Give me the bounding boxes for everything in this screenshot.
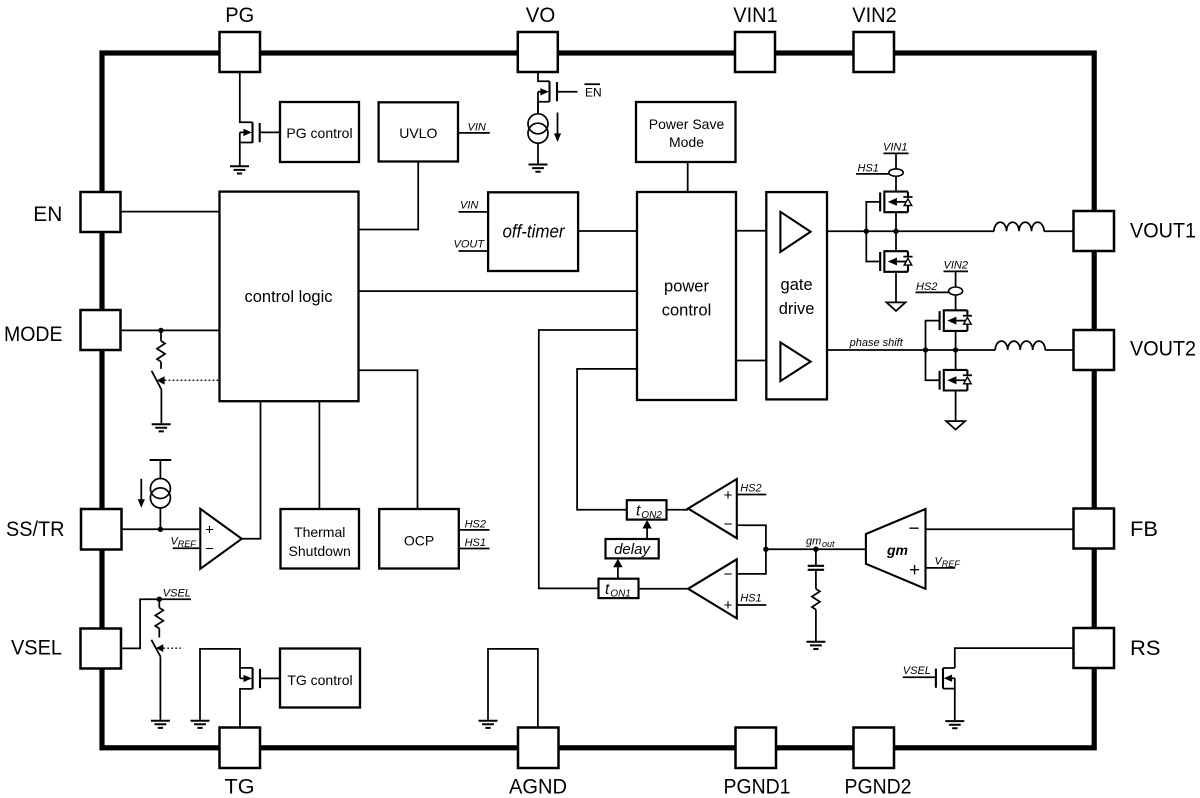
- block control logic: [220, 192, 359, 402]
- arrow delay to tON2: [646, 528, 648, 540]
- wire power control to tON1: [539, 330, 637, 588]
- svg-text:VSEL: VSEL: [163, 588, 191, 600]
- svg-text:phase shift: phase shift: [849, 337, 904, 349]
- svg-text:VIN: VIN: [468, 122, 486, 134]
- svg-text:VIN2: VIN2: [852, 3, 897, 27]
- block tON1: [599, 579, 639, 598]
- svg-text:EN: EN: [33, 202, 62, 226]
- svg-text:+: +: [724, 597, 733, 614]
- wire power control to gate drive (top): [736, 230, 766, 232]
- wire A1 out: [737, 549, 766, 574]
- transistor Q2 (VO): [538, 72, 550, 114]
- stub HS2 (A2): [737, 494, 767, 496]
- pin PGND2: [854, 728, 895, 769]
- wire RS pin: [955, 648, 1074, 668]
- pin VIN1: [735, 32, 775, 72]
- svg-text:TG control: TG control: [287, 672, 352, 688]
- svg-text:Thermal: Thermal: [294, 524, 345, 540]
- arrow (I2 current): [140, 479, 142, 500]
- wire tON1 to comparator A1: [639, 588, 689, 590]
- wire gm to FB: [926, 528, 1074, 530]
- svg-text:HS2: HS2: [916, 281, 937, 293]
- svg-text:−: −: [724, 566, 733, 583]
- transistor Q4 (RS): [943, 668, 955, 720]
- pin EN: [81, 192, 121, 232]
- svg-text:−: −: [908, 519, 919, 540]
- comparator A1: [688, 559, 737, 618]
- svg-text:control logic: control logic: [244, 288, 332, 306]
- node switch node 2: [953, 347, 958, 352]
- pin VOUT2: [1074, 330, 1115, 370]
- node switch node 1: [893, 229, 898, 234]
- resistor R3: [812, 589, 820, 610]
- pin AGND: [518, 728, 559, 769]
- pin RS: [1074, 628, 1115, 668]
- node VSEL junction: [157, 597, 162, 602]
- svg-text:MODE: MODE: [4, 322, 63, 346]
- stub HS1 (OCP): [459, 548, 490, 550]
- switch S2 (VSEL): [151, 640, 160, 657]
- inductor L1: [994, 222, 1044, 231]
- transistor M3: [940, 310, 972, 331]
- wire control logic to Thermal Shutdown: [318, 401, 320, 509]
- transistor M4: [940, 370, 972, 391]
- svg-text:VIN1: VIN1: [733, 3, 778, 27]
- svg-text:AGND: AGND: [509, 775, 567, 798]
- ground arrow (HS1): [887, 302, 906, 311]
- ground (VSEL switch): [151, 721, 170, 728]
- arrow (I1 current): [557, 113, 559, 135]
- svg-text:TG: TG: [225, 775, 255, 798]
- pin VSEL: [81, 629, 122, 669]
- svg-text:HS2: HS2: [465, 519, 486, 531]
- ground (VO): [529, 165, 548, 172]
- IC boundary: [102, 53, 1094, 748]
- comparator A2: [688, 479, 737, 538]
- wire MODE to control logic: [121, 329, 220, 331]
- svg-text:UVLO: UVLO: [399, 125, 437, 141]
- svg-text:REF: REF: [178, 539, 197, 549]
- ground (RS): [945, 721, 964, 728]
- comparator U2 (SS/TR): [200, 509, 241, 569]
- svg-text:Power Save: Power Save: [649, 116, 725, 132]
- svg-text:out: out: [822, 539, 835, 549]
- ground (R3): [806, 642, 825, 649]
- pin FB: [1074, 509, 1115, 549]
- wire junction to gm: [766, 548, 866, 550]
- wire UVLO to control logic: [359, 162, 419, 230]
- transistor Q3 (TG): [200, 649, 253, 728]
- svg-text:HS1: HS1: [465, 537, 486, 549]
- svg-text:VO: VO: [526, 3, 556, 27]
- bar (SS/TR supply): [150, 459, 172, 461]
- transistor M2: [880, 251, 912, 272]
- pin VO: [518, 32, 558, 72]
- current source I2: [150, 479, 170, 508]
- svg-text:+: +: [724, 487, 733, 504]
- wire off-timer to power control: [578, 230, 637, 232]
- node gate rail 2: [923, 347, 928, 352]
- block off-timer: [488, 192, 578, 271]
- gate rail HS2: [926, 321, 940, 381]
- pin PG: [220, 32, 261, 72]
- wire tON2 to comparator A2: [667, 509, 689, 511]
- svg-text:gate: gate: [781, 276, 813, 294]
- resistor R1 (MODE): [160, 330, 162, 341]
- wire PSM to power control: [687, 162, 689, 192]
- svg-text:OCP: OCP: [404, 533, 434, 549]
- arrow tON1 to delay: [617, 567, 619, 579]
- svg-text:PGND2: PGND2: [845, 775, 912, 798]
- svg-text:VOUT2: VOUT2: [1130, 337, 1196, 361]
- wire gate drive to switch node 1: [827, 230, 994, 232]
- stub VOUT (off-timer): [459, 250, 489, 252]
- svg-text:VIN2: VIN2: [944, 259, 968, 271]
- block Power Save Mode: [636, 102, 736, 162]
- wire AGND U-shape: [488, 649, 538, 728]
- svg-text:ON2: ON2: [641, 510, 662, 521]
- wire power control to tON2: [577, 369, 637, 510]
- block TG control: [280, 649, 360, 708]
- block Thermal Shutdown: [281, 509, 360, 569]
- node gm_out: [813, 547, 818, 552]
- buffer B2: [780, 342, 810, 381]
- svg-text:gm: gm: [806, 536, 821, 548]
- ground arrow (HS2): [946, 421, 965, 430]
- ground (MODE switch): [152, 424, 171, 431]
- svg-text:−: −: [724, 516, 733, 533]
- svg-text:EN: EN: [585, 86, 602, 100]
- wire A2 out: [737, 525, 766, 549]
- capacitor C1: [815, 549, 817, 565]
- wire control logic to OCP: [359, 370, 418, 509]
- svg-text:SS/TR: SS/TR: [6, 517, 65, 541]
- svg-text:VSEL: VSEL: [11, 636, 62, 660]
- node MODE junction: [158, 328, 163, 333]
- svg-text:off-timer: off-timer: [503, 221, 566, 242]
- amplifier gm: [866, 509, 926, 589]
- resistor R2 (VSEL): [158, 599, 160, 608]
- svg-text:control: control: [662, 301, 712, 319]
- pin SS/TR: [81, 509, 122, 550]
- svg-text:ON1: ON1: [610, 588, 631, 599]
- svg-text:REF: REF: [942, 559, 961, 569]
- svg-text:HS2: HS2: [740, 483, 761, 495]
- transistor Q1 (PG): [240, 72, 253, 166]
- transistor M1: [880, 192, 912, 213]
- pin VIN2: [854, 32, 895, 72]
- svg-text:t: t: [636, 503, 641, 520]
- sense ellipse E1: [889, 169, 903, 176]
- wire L1 to VOUT1: [1044, 230, 1074, 232]
- svg-text:Shutdown: Shutdown: [289, 543, 351, 559]
- pin PGND1: [736, 728, 777, 769]
- block power control: [637, 192, 736, 400]
- svg-text:VIN: VIN: [460, 200, 478, 212]
- svg-text:+: +: [205, 522, 214, 539]
- svg-text:HS1: HS1: [858, 162, 879, 174]
- gate rail HS1: [866, 202, 880, 262]
- svg-text:drive: drive: [779, 300, 815, 318]
- stub VREF (gm): [926, 567, 956, 569]
- stub HS1 (A1): [737, 604, 767, 606]
- wire power control to gate drive (bottom): [736, 360, 766, 362]
- stub VIN (UVLO): [458, 132, 490, 134]
- wire SS/TR to comparator: [122, 528, 200, 530]
- ground (TG): [191, 721, 210, 728]
- svg-text:gm: gm: [886, 542, 908, 558]
- ground (AGND): [479, 721, 498, 728]
- svg-text:t: t: [605, 581, 610, 598]
- block PG control: [280, 102, 359, 162]
- switch S1 (MODE): [152, 371, 162, 390]
- svg-text:delay: delay: [614, 541, 651, 558]
- svg-text:−: −: [205, 541, 214, 558]
- block delay: [606, 539, 659, 558]
- block gate drive: [766, 192, 827, 399]
- svg-text:PG: PG: [225, 3, 254, 27]
- svg-text:PGND1: PGND1: [724, 775, 791, 798]
- node SS/TR junction: [158, 527, 163, 532]
- sense ellipse E2: [949, 287, 963, 295]
- pin TG: [220, 728, 261, 769]
- wire EN to control logic: [121, 211, 220, 213]
- stub VIN (off-timer): [459, 211, 489, 213]
- wire VSEL pin network: [121, 599, 191, 648]
- ground (PG): [230, 166, 249, 173]
- svg-text:VSEL: VSEL: [903, 665, 931, 677]
- wire control logic to power control: [359, 290, 638, 292]
- svg-text:+: +: [909, 560, 920, 581]
- block OCP: [379, 509, 459, 569]
- stub HS2 (OCP): [459, 529, 490, 531]
- inductor L2: [995, 341, 1045, 350]
- svg-text:FB: FB: [1130, 517, 1158, 541]
- wire L2 to VOUT2: [1045, 349, 1073, 351]
- svg-text:Mode: Mode: [669, 134, 704, 150]
- wire gate drive to switch node 2 (phase shift): [827, 349, 995, 351]
- svg-text:RS: RS: [1130, 636, 1161, 660]
- node gate rail 1: [864, 229, 869, 234]
- svg-text:power: power: [664, 278, 709, 296]
- svg-text:VIN1: VIN1: [883, 142, 907, 154]
- wire U2 out to control logic: [242, 401, 261, 539]
- svg-text:PG control: PG control: [286, 125, 352, 141]
- buffer B1: [780, 212, 810, 252]
- node comparator junction: [763, 547, 768, 552]
- svg-text:VOUT1: VOUT1: [1130, 219, 1196, 243]
- block tON2: [627, 500, 667, 519]
- pin VOUT1: [1074, 211, 1115, 251]
- svg-text:VOUT: VOUT: [454, 239, 486, 251]
- pin MODE: [81, 310, 121, 350]
- current source I1: [528, 114, 548, 143]
- svg-text:HS1: HS1: [740, 593, 761, 605]
- block UVLO: [379, 102, 458, 161]
